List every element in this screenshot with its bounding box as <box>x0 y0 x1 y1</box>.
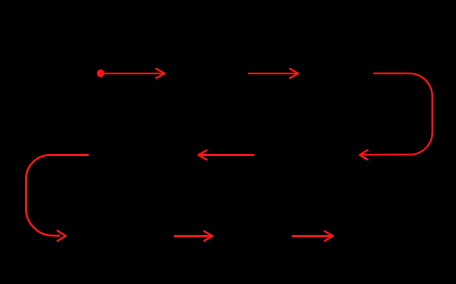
start dot node A <box>97 70 105 78</box>
arrow 2 (row 1, B to C) <box>249 69 299 78</box>
wrap-around curve left (row 2 to row 3) <box>26 155 88 241</box>
arrow 3 (row 2, leftwards) <box>198 150 253 159</box>
wrap-around curve right (row 1 to row 2) <box>360 73 433 159</box>
arrow 1 (row 1, A to B) <box>104 69 165 78</box>
arrow 4 (row 3, rightwards) <box>175 231 213 241</box>
arrow 5 (row 3, rightwards) <box>293 231 334 241</box>
